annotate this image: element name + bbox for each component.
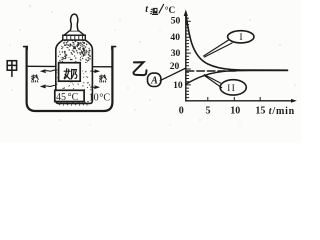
water surface line — [28, 65, 112, 68]
milk bottle body — [56, 40, 93, 103]
y-axis ruler ticks — [186, 18, 191, 98]
leader line A — [160, 68, 186, 81]
leader wedge II — [204, 75, 221, 88]
container rim lip right — [112, 47, 116, 49]
svg-text:°C: °C — [165, 5, 176, 16]
y-axis labels — [170, 15, 183, 91]
speckles on body sides — [56, 62, 91, 90]
character 热 right (heat) — [100, 75, 107, 82]
leader wedge I — [204, 40, 232, 57]
y-axis title subscript 温 (temperature) — [151, 8, 158, 14]
heat arrow left lower — [42, 85, 57, 88]
x-axis — [186, 100, 292, 102]
heat arrow right lower — [91, 86, 99, 88]
y-axis arrowhead — [184, 10, 188, 17]
character 奶 (milk) — [64, 69, 77, 79]
container rim lip left — [24, 47, 28, 49]
svg-text:20: 20 — [170, 61, 180, 72]
curve II (warming) — [186, 71, 288, 85]
svg-text:5: 5 — [206, 105, 211, 116]
x-axis arrowhead — [291, 99, 297, 103]
svg-text:I: I — [239, 32, 242, 43]
svg-text:t/min: t/min — [269, 106, 295, 117]
callout ellipse II — [220, 80, 246, 95]
cap ring ticks — [67, 36, 83, 40]
svg-text:10: 10 — [230, 105, 240, 116]
x-axis ticks — [208, 97, 260, 100]
svg-text:40: 40 — [170, 32, 180, 43]
curve I (cooling) — [186, 14, 288, 71]
svg-text:0: 0 — [179, 105, 184, 116]
svg-text:°C: °C — [99, 92, 110, 103]
character 热 left (heat) — [32, 75, 39, 82]
dashed level line — [186, 70, 235, 72]
label 甲 (jia) — [7, 61, 16, 77]
svg-text:II: II — [227, 83, 236, 94]
svg-text:10: 10 — [89, 92, 99, 103]
svg-text:10: 10 — [173, 80, 183, 91]
svg-text:t: t — [145, 4, 149, 15]
45 °C box on bottle — [55, 90, 84, 101]
water bath container — [27, 48, 113, 112]
svg-text:50: 50 — [171, 15, 181, 26]
milk label box 奶 — [59, 63, 81, 81]
heat arrow right upper — [91, 70, 99, 72]
svg-text:30: 30 — [171, 48, 181, 59]
condensation speckles on shoulder — [58, 40, 91, 62]
y-axis — [185, 14, 187, 101]
callout ellipse I — [228, 31, 254, 43]
svg-text:15: 15 — [255, 105, 265, 116]
callout box A — [148, 73, 161, 86]
bottle cap ring — [63, 35, 86, 40]
svg-text:A: A — [150, 76, 158, 87]
svg-text:45: 45 — [56, 92, 66, 103]
label 乙 (yi) — [134, 62, 147, 75]
faint scan noise dots — [9, 5, 295, 125]
extra dome speckle clumps — [64, 41, 91, 56]
svg-text:°C: °C — [68, 92, 79, 103]
y-axis title slash — [159, 4, 164, 13]
bottle nipple collar — [64, 31, 84, 35]
x-axis labels — [179, 105, 266, 116]
heat arrow left upper — [42, 70, 57, 73]
speckle band under 45C box — [57, 101, 88, 106]
bottle teat — [70, 14, 78, 31]
